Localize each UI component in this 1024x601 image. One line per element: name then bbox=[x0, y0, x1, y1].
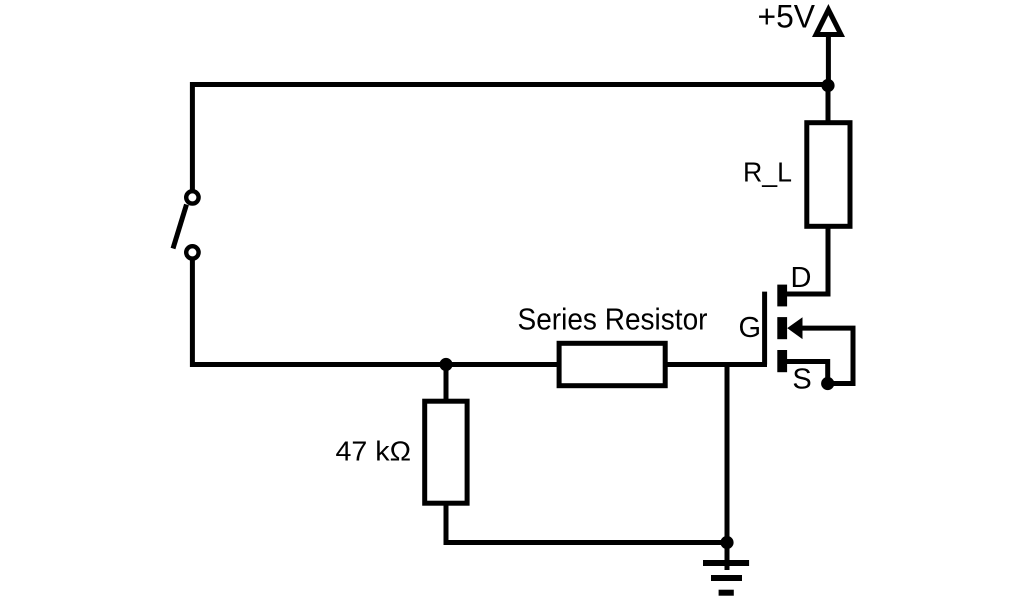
wire: R_L bottom down then left into MOSFET drain contact bbox=[785, 225, 828, 294]
gate electrode line bbox=[762, 292, 767, 365]
wire: node down to R_L bbox=[826, 86, 831, 126]
svg-text:47 kΩ: 47 kΩ bbox=[336, 436, 412, 467]
svg-text:Series Resistor: Series Resistor bbox=[518, 302, 708, 337]
source contact bar bbox=[777, 350, 787, 372]
switch lever bbox=[173, 205, 187, 249]
node: +5V junction bbox=[821, 79, 834, 92]
body contact bar bbox=[777, 317, 787, 339]
wire: body to source tie (right, down, left to source node) bbox=[800, 328, 853, 383]
wire: source contact right and down to source node bbox=[786, 362, 828, 384]
svg-text:D: D bbox=[791, 262, 812, 294]
drain contact bar bbox=[777, 285, 787, 307]
resistor 47 kOhm (vertical box) bbox=[425, 401, 467, 503]
wire: junction to 47k resistor top bbox=[444, 365, 449, 404]
body arrow bbox=[787, 317, 802, 339]
svg-text:S: S bbox=[792, 363, 811, 395]
resistor R_L (vertical box) bbox=[807, 123, 850, 227]
power +5V symbol (triangle) bbox=[812, 4, 845, 37]
transistor Q1 (N-channel MOSFET) bbox=[765, 285, 803, 373]
svg-text:G: G bbox=[739, 312, 762, 344]
node: ground junction bbox=[720, 536, 733, 549]
switch SW1 bbox=[173, 191, 199, 258]
node: gate rail / 47k junction bbox=[439, 358, 452, 371]
switch contact top bbox=[186, 191, 198, 203]
svg-text:+5V: +5V bbox=[758, 0, 816, 35]
node: source / body junction bbox=[821, 377, 834, 390]
wire: 47k bottom down and right to ground node bbox=[446, 501, 727, 543]
resistor Series Resistor (horizontal box) bbox=[559, 343, 665, 385]
wire: top rail from +5V node left and down to switch bbox=[192, 85, 828, 191]
ground symbol bbox=[703, 543, 749, 593]
wire: switch bottom down and right along bottom rail to MOSFET gate bbox=[192, 260, 767, 365]
switch contact bottom bbox=[186, 246, 198, 258]
wire: +5V triangle to node bbox=[826, 34, 831, 86]
svg-text:R_L: R_L bbox=[743, 156, 792, 187]
wire: gate rail junction down to ground node bbox=[725, 365, 730, 543]
